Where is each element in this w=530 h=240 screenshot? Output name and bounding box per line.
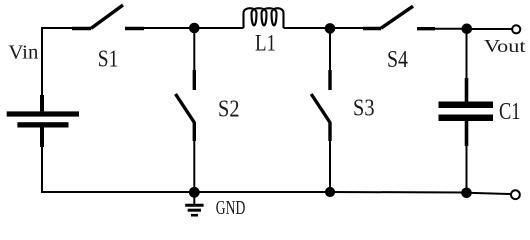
switch S3 top contact: [328, 70, 331, 90]
wire node A to inductor: [194, 27, 244, 29]
ground bar 2: [188, 209, 201, 212]
wire S1 to node A: [144, 27, 194, 29]
wire node C down to C1: [466, 29, 468, 78]
node A junction dot: [190, 23, 200, 33]
switch S3 blade: [311, 94, 330, 123]
svg-text:Vin: Vin: [8, 42, 38, 64]
node C junction dot: [462, 24, 472, 34]
wire bottom rail middle: [194, 191, 330, 193]
ground bar 1: [185, 204, 203, 207]
switch S1 blade: [91, 5, 123, 28]
wire rail node F to bottom-right terminal: [467, 193, 512, 194]
svg-text:S3: S3: [353, 96, 375, 122]
wire node C to Vout terminal: [467, 28, 512, 30]
wire node A down to S2: [193, 28, 195, 70]
capacitor C1 bottom plate: [439, 115, 494, 122]
wire battery to bottom rail: [42, 147, 194, 192]
bottom-right terminal circle: [511, 190, 520, 199]
svg-text:S2: S2: [218, 97, 240, 123]
switch S4 left contact: [363, 27, 381, 30]
wire S2 to bottom rail: [193, 141, 195, 192]
switch S1 right contact: [125, 27, 144, 30]
battery Vin bottom lead: [40, 128, 44, 148]
wire rail S3 to node F: [330, 191, 467, 194]
node F junction dot (C1/rail): [462, 188, 472, 198]
switch S3 bottom contact: [328, 122, 331, 141]
svg-text:S1: S1: [98, 47, 119, 73]
wire C1 to bottom rail: [466, 146, 468, 193]
battery Vin top lead: [40, 95, 44, 111]
node D junction dot (S2/GND): [189, 187, 199, 197]
ground stub: [193, 192, 195, 204]
wire inductor to node B and S4: [284, 27, 364, 29]
capacitor C1 top lead: [465, 78, 469, 102]
capacitor C1 bottom lead: [465, 121, 469, 146]
switch S2 bottom contact: [193, 122, 196, 141]
switch S1 left contact: [72, 27, 91, 30]
node B junction dot: [325, 24, 335, 34]
Vout terminal circle: [512, 25, 520, 33]
battery Vin short plate: [17, 122, 68, 127]
switch S4 right contact: [417, 27, 435, 30]
wire S4 to node C: [435, 28, 467, 30]
wire top-left from Vin branch to S1 left contact: [42, 28, 72, 95]
capacitor C1 top plate: [439, 102, 494, 109]
svg-text:GND: GND: [216, 197, 246, 219]
ground bar 3: [191, 214, 198, 217]
inductor L1: [244, 8, 284, 28]
wire S3 to bottom rail: [329, 141, 331, 192]
svg-text:Vout: Vout: [484, 36, 526, 56]
node E junction dot (S3/rail): [325, 187, 334, 196]
svg-text:L1: L1: [255, 31, 276, 56]
wire node B down to S3: [329, 28, 331, 70]
switch S2 top contact: [193, 70, 196, 90]
svg-text:S4: S4: [387, 47, 408, 73]
switch S4 blade: [381, 6, 413, 28]
switch S2 blade: [176, 94, 195, 123]
battery Vin long plate: [7, 111, 79, 116]
svg-text:C1: C1: [499, 98, 521, 125]
